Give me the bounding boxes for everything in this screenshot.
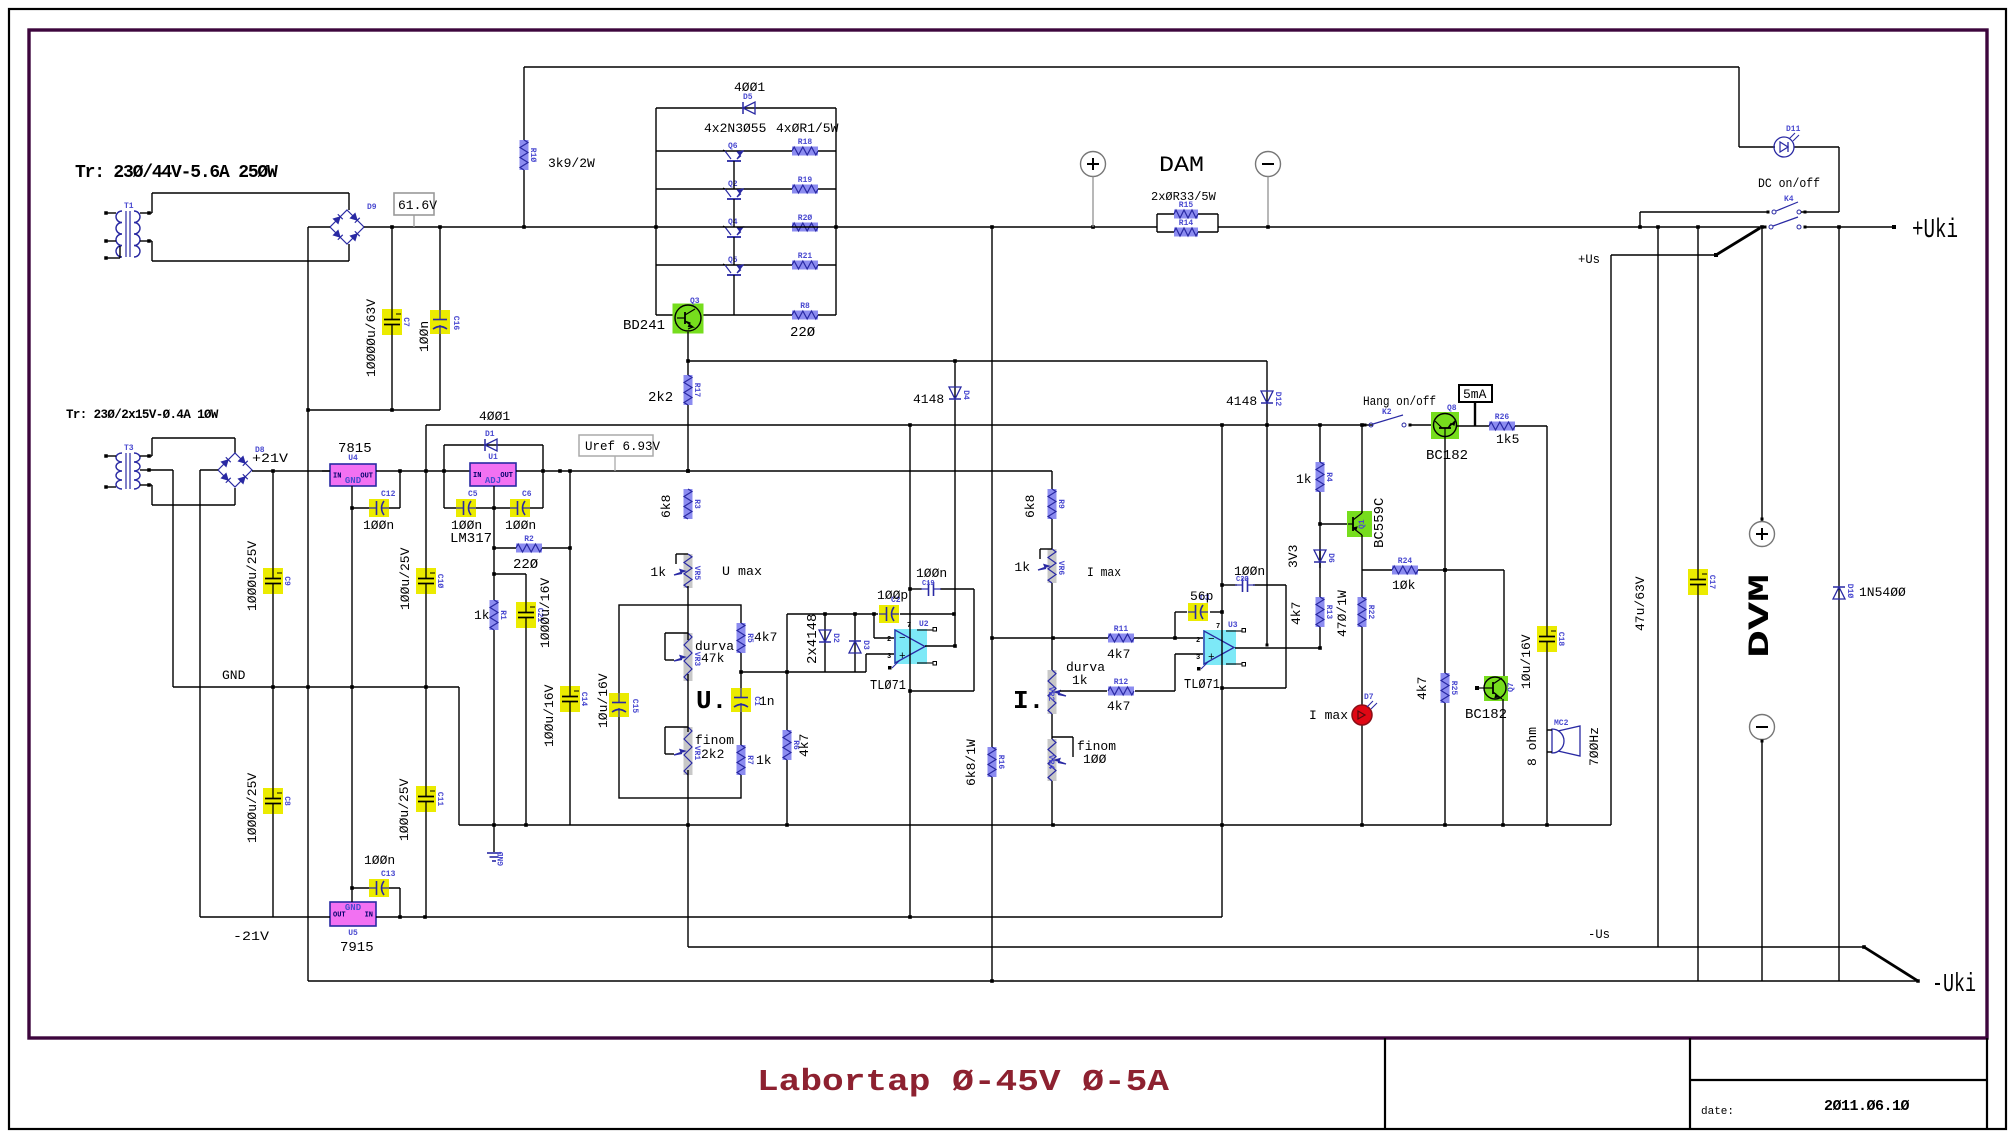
svg-text:C16: C16 bbox=[451, 316, 460, 331]
capacitor C12 100n bbox=[351, 486, 353, 687]
svg-text:Q3: Q3 bbox=[690, 297, 700, 306]
capacitor C18 10u/16V bbox=[1537, 626, 1557, 652]
terminal - circle bbox=[1256, 152, 1281, 177]
svg-text:I max: I max bbox=[1087, 565, 1121, 580]
wire pot column bbox=[687, 586, 689, 640]
svg-text:C8: C8 bbox=[282, 796, 291, 806]
svg-text:R18: R18 bbox=[798, 138, 813, 147]
resistor R17 2k2 bbox=[684, 375, 693, 405]
diode D5 bbox=[656, 107, 836, 109]
svg-text:IN: IN bbox=[473, 472, 481, 480]
resistor R13 4k7 bbox=[1316, 597, 1325, 627]
svg-text:GND: GND bbox=[222, 668, 246, 683]
capacitor C9 1000u/25V bbox=[272, 471, 274, 687]
wire R2 to C14 column bbox=[569, 471, 571, 825]
svg-text:R4: R4 bbox=[1324, 472, 1333, 482]
capacitor C6 100n bbox=[510, 499, 530, 517]
svg-text:R5: R5 bbox=[745, 633, 754, 643]
svg-text:4xØR1/5W: 4xØR1/5W bbox=[776, 121, 839, 136]
svg-text:VR5: VR5 bbox=[692, 566, 701, 581]
wire DVM plus column bbox=[1761, 227, 1763, 521]
svg-text:D1Ø: D1Ø bbox=[1845, 584, 1854, 599]
capacitor C17 47u/63V bbox=[1688, 569, 1708, 595]
svg-text:C5: C5 bbox=[468, 490, 478, 499]
svg-text:MC2: MC2 bbox=[1554, 719, 1569, 728]
svg-text:LM317: LM317 bbox=[450, 531, 492, 547]
svg-text:22Ø: 22Ø bbox=[513, 557, 538, 573]
svg-text:R1Ø: R1Ø bbox=[528, 148, 537, 163]
wire Q7 collector feed bbox=[1503, 570, 1505, 677]
svg-text:2k2: 2k2 bbox=[701, 747, 724, 762]
DVM plus terminal bbox=[1750, 522, 1775, 547]
svg-text:1k: 1k bbox=[474, 608, 490, 623]
svg-text:-21V: -21V bbox=[233, 929, 269, 944]
svg-text:K4: K4 bbox=[1784, 195, 1794, 204]
ground symbol GND bbox=[493, 825, 495, 852]
wire Q7 emitter down bbox=[1502, 699, 1504, 825]
svg-text:DAM: DAM bbox=[1159, 153, 1204, 178]
svg-text:Labortap Ø-45V Ø-5A: Labortap Ø-45V Ø-5A bbox=[757, 1065, 1169, 1100]
wire output blade bbox=[1864, 947, 1918, 981]
svg-text:4148: 4148 bbox=[913, 392, 944, 407]
svg-text:R9: R9 bbox=[1056, 499, 1065, 509]
wire to Q8 bbox=[1410, 424, 1434, 426]
wire supply column 1222 bbox=[1221, 425, 1223, 917]
svg-text:1ØØØØu/63V: 1ØØØØu/63V bbox=[364, 299, 379, 377]
svg-text:D12: D12 bbox=[1273, 392, 1282, 407]
node minus-junction 410 bbox=[306, 408, 310, 412]
svg-text:TLØ71: TLØ71 bbox=[1184, 678, 1220, 693]
wire K4 upper pole tap bbox=[1640, 211, 1768, 213]
svg-text:R14: R14 bbox=[1179, 219, 1194, 228]
diode D12 4148 bbox=[1266, 361, 1268, 644]
svg-text:R2: R2 bbox=[524, 535, 534, 544]
capacitor C14 100u/16V bbox=[560, 686, 580, 712]
resistor R8 bbox=[792, 311, 818, 320]
resistor R22 470/1W bbox=[1361, 570, 1363, 825]
pot VR3 durva 47k bbox=[684, 633, 693, 681]
resistor R10 3k9/2W bbox=[523, 67, 525, 227]
label 5mA box bbox=[1459, 385, 1492, 402]
wire 4001 rail bbox=[426, 424, 1373, 426]
wire C3 corner bbox=[1174, 612, 1176, 638]
svg-text:R3: R3 bbox=[692, 499, 701, 509]
svg-text:1N54ØØ: 1N54ØØ bbox=[1859, 585, 1906, 600]
wire capacitor bottom rail bbox=[308, 409, 440, 411]
svg-text:U4: U4 bbox=[348, 454, 358, 463]
svg-text:Q1: Q1 bbox=[1358, 519, 1367, 529]
svg-text:U max: U max bbox=[722, 564, 762, 579]
svg-text:1Øk: 1Øk bbox=[1392, 578, 1416, 593]
pot VR2 durva 1k bbox=[1048, 670, 1057, 714]
svg-text:ADJ: ADJ bbox=[485, 476, 501, 486]
svg-text:2: 2 bbox=[887, 636, 891, 644]
svg-text:D5: D5 bbox=[743, 93, 753, 102]
svg-text:IN: IN bbox=[333, 473, 341, 481]
wire U5 gnd bbox=[351, 687, 353, 902]
svg-text:U3: U3 bbox=[1228, 621, 1238, 630]
svg-text:U1: U1 bbox=[488, 453, 498, 462]
svg-text:C17: C17 bbox=[1707, 575, 1716, 590]
svg-text:7ØØHz: 7ØØHz bbox=[1587, 727, 1602, 766]
svg-text:3V3: 3V3 bbox=[1286, 545, 1301, 568]
svg-text:2k2: 2k2 bbox=[648, 390, 673, 406]
wire 471 rail to R9 bbox=[1051, 471, 1053, 825]
svg-text:T3: T3 bbox=[124, 444, 134, 453]
switch K4 upper pole bbox=[1772, 210, 1776, 214]
wire T1 S1 to bridge top bbox=[149, 212, 152, 214]
DVM minus terminal bbox=[1750, 715, 1775, 740]
svg-text:3: 3 bbox=[887, 653, 891, 661]
capacitor C2 100p bbox=[879, 605, 899, 623]
wire +Us vertical bbox=[1610, 255, 1612, 825]
svg-text:Q2: Q2 bbox=[728, 180, 738, 189]
svg-text:OUT: OUT bbox=[333, 912, 346, 920]
diode clamp rail bbox=[786, 614, 788, 672]
svg-text:1ØØn: 1ØØn bbox=[916, 566, 947, 581]
svg-text:C18: C18 bbox=[1556, 632, 1565, 647]
svg-text:3: 3 bbox=[1196, 654, 1200, 662]
svg-text:D1: D1 bbox=[485, 430, 495, 439]
transistor Q4 row bbox=[725, 227, 731, 235]
wire BD241 row bbox=[656, 314, 836, 316]
svg-text:1ØØ: 1ØØ bbox=[1083, 752, 1107, 767]
svg-text:R25: R25 bbox=[1449, 681, 1458, 696]
svg-text:R19: R19 bbox=[798, 176, 813, 185]
svg-text:Q5: Q5 bbox=[728, 256, 738, 265]
capacitor C8 1000u/25V bbox=[272, 687, 274, 917]
diode D2 bbox=[824, 614, 826, 672]
svg-text:date:: date: bbox=[1701, 1106, 1734, 1118]
svg-text:+21V: +21V bbox=[252, 451, 288, 466]
svg-text:1k: 1k bbox=[650, 565, 666, 580]
transistor Q1 BC559C bbox=[1347, 511, 1372, 537]
diode D10 1N5400 bbox=[1833, 587, 1845, 599]
resistor R3 6k8 bbox=[684, 489, 693, 519]
svg-text:D4: D4 bbox=[961, 390, 970, 400]
svg-text:U5: U5 bbox=[348, 929, 358, 938]
svg-text:VR2: VR2 bbox=[1046, 687, 1055, 702]
svg-text:3k9/2W: 3k9/2W bbox=[548, 156, 595, 171]
svg-text:+Us: +Us bbox=[1578, 252, 1600, 267]
svg-text:D11: D11 bbox=[1786, 125, 1801, 134]
svg-text:1k: 1k bbox=[1014, 560, 1030, 575]
svg-text:Tr: 23Ø/2x15V-Ø.4A 1ØW: Tr: 23Ø/2x15V-Ø.4A 1ØW bbox=[66, 408, 219, 422]
wire opamp supply column bbox=[909, 425, 911, 917]
bridge rectifier D9 bbox=[330, 210, 364, 244]
svg-text:1k: 1k bbox=[756, 753, 772, 768]
svg-text:56p: 56p bbox=[1190, 589, 1213, 604]
bridge rectifier D8 bbox=[218, 453, 252, 487]
resistor R7 1k bbox=[737, 745, 746, 775]
svg-text:VR4: VR4 bbox=[1046, 755, 1055, 770]
resistor R9 6k8 bbox=[1048, 489, 1057, 519]
resistor R5 4k7 bbox=[737, 623, 746, 653]
transistor Q3 BD241 bbox=[673, 304, 704, 334]
svg-text:2: 2 bbox=[1196, 637, 1200, 645]
svg-text:1ØØØu/16V: 1ØØØu/16V bbox=[538, 578, 553, 648]
svg-text:C9: C9 bbox=[282, 576, 291, 586]
wire opamp minus input bbox=[873, 614, 875, 638]
wire 672 tap line bbox=[739, 670, 743, 674]
svg-text:D2: D2 bbox=[831, 633, 840, 643]
resistor R14 bbox=[1217, 214, 1219, 232]
wire ADJ down bbox=[493, 486, 495, 825]
wire BD241 emitter bbox=[687, 332, 689, 471]
svg-text:47Ø/1W: 47Ø/1W bbox=[1335, 590, 1350, 637]
resistor R12 4k7 bbox=[1108, 687, 1134, 696]
wire column D10 bbox=[1838, 227, 1840, 981]
svg-text:7915: 7915 bbox=[340, 940, 374, 956]
transformer T1 bbox=[116, 211, 122, 257]
label Uref 6.93V box bbox=[579, 435, 653, 456]
led D7 I max bbox=[1352, 705, 1372, 725]
wire block right vertical bbox=[835, 108, 837, 315]
resistor R16 6k8/1W bbox=[991, 227, 993, 981]
title block box bbox=[1384, 1038, 1386, 1129]
capacitor C15 10u/16V bbox=[609, 693, 629, 717]
svg-text:1ØØn: 1ØØn bbox=[364, 853, 395, 868]
capacitor C10 100u/25V bbox=[425, 471, 427, 687]
pot VR1 finom 2k2 bbox=[684, 727, 693, 775]
speaker MC2 8ohm 700Hz bbox=[1552, 729, 1564, 753]
transistor Q8 BC182 bbox=[1431, 412, 1459, 439]
svg-text:R24: R24 bbox=[1398, 557, 1413, 566]
wire Q8 to R26 bbox=[1456, 425, 1490, 427]
resistor R19 bbox=[792, 185, 818, 194]
svg-text:I max: I max bbox=[1309, 708, 1348, 723]
wire T1 S3 to bridge bottom bbox=[149, 240, 152, 242]
U block box bbox=[619, 605, 741, 798]
wire +21V rail bbox=[252, 470, 330, 472]
svg-text:R2Ø: R2Ø bbox=[798, 214, 813, 223]
wire Q1 collector down bbox=[1361, 535, 1363, 570]
svg-text:BC182: BC182 bbox=[1465, 707, 1507, 723]
svg-text:C1Ø: C1Ø bbox=[435, 574, 444, 589]
wire rail to DAM bbox=[836, 226, 1157, 228]
wire opamp plus input bbox=[865, 654, 867, 672]
terminal + circle bbox=[1081, 152, 1106, 177]
resistor R20 bbox=[792, 223, 818, 232]
wire U3 minus bbox=[1175, 637, 1204, 639]
svg-text:R8: R8 bbox=[800, 302, 810, 311]
svg-text:R17: R17 bbox=[692, 383, 701, 398]
svg-text:22Ø: 22Ø bbox=[790, 325, 815, 341]
switch K2 bbox=[1369, 423, 1373, 427]
wire rail through block bbox=[656, 226, 836, 228]
capacitor C7 10000u/63V bbox=[391, 227, 393, 410]
svg-text:R15: R15 bbox=[1179, 201, 1194, 210]
svg-text:1ØØu/16V: 1ØØu/16V bbox=[542, 684, 557, 747]
svg-text:47u/63V: 47u/63V bbox=[1633, 576, 1648, 631]
svg-text:U2: U2 bbox=[919, 620, 929, 629]
svg-text:1ØØØu/25V: 1ØØØu/25V bbox=[245, 773, 260, 843]
svg-text:+: + bbox=[899, 651, 906, 663]
svg-text:−: − bbox=[1208, 634, 1215, 646]
wire top rail down bbox=[1738, 67, 1740, 147]
capacitor C19 100n loop bbox=[910, 588, 922, 590]
svg-text:C12: C12 bbox=[381, 490, 396, 499]
svg-text:C11: C11 bbox=[435, 792, 444, 807]
svg-text:D9: D9 bbox=[367, 203, 377, 212]
svg-text:4ØØ1: 4ØØ1 bbox=[479, 409, 510, 424]
svg-text:GND: GND bbox=[497, 851, 506, 866]
capacitor C11 100u/25V bbox=[425, 687, 427, 917]
resistor R24 10k bbox=[1392, 566, 1418, 575]
wire U3 output bbox=[1235, 647, 1320, 649]
wire R4 column bbox=[1319, 425, 1321, 648]
wire 425 rail corner bbox=[425, 425, 427, 471]
svg-text:U.: U. bbox=[696, 686, 727, 716]
wire 61.6V rail bbox=[364, 226, 656, 228]
wire block left vertical bbox=[655, 108, 657, 315]
svg-text:1ØØn: 1ØØn bbox=[505, 518, 536, 533]
capacitor C16 100n bbox=[439, 227, 441, 410]
resistor R25 4k7 bbox=[1441, 673, 1450, 703]
svg-text:5mA: 5mA bbox=[1463, 387, 1487, 402]
resistor R26 1k5 bbox=[1489, 422, 1515, 431]
svg-text:OUT: OUT bbox=[360, 473, 373, 481]
regulator U1 LM317 bbox=[470, 463, 516, 486]
svg-text:−: − bbox=[899, 633, 906, 645]
svg-text:-Us: -Us bbox=[1588, 927, 1610, 942]
svg-text:DVM: DVM bbox=[1744, 574, 1778, 658]
svg-text:Q6: Q6 bbox=[728, 142, 738, 151]
svg-text:1k: 1k bbox=[1072, 673, 1088, 688]
svg-text:C14: C14 bbox=[579, 692, 588, 707]
svg-text:D6: D6 bbox=[1326, 553, 1335, 563]
led D11 bbox=[1739, 146, 1775, 148]
wire U2 output bbox=[925, 645, 955, 647]
svg-text:1ØØu/25V: 1ØØu/25V bbox=[398, 547, 413, 610]
wire -Uki rail 981 bbox=[308, 980, 1918, 982]
svg-text:1ØØn: 1ØØn bbox=[1234, 564, 1265, 579]
svg-text:OUT: OUT bbox=[500, 472, 513, 480]
svg-text:1ØØØu/25V: 1ØØØu/25V bbox=[245, 541, 260, 611]
svg-text:BC182: BC182 bbox=[1426, 448, 1468, 464]
svg-text:1Øu/16V: 1Øu/16V bbox=[596, 673, 611, 728]
wire bridge minus down bbox=[308, 226, 330, 228]
svg-text:1k5: 1k5 bbox=[1496, 432, 1519, 447]
svg-text:1ØØp: 1ØØp bbox=[877, 588, 908, 603]
wire rail DAM to switch bbox=[1218, 226, 1762, 228]
svg-text:4x2N3Ø55: 4x2N3Ø55 bbox=[704, 121, 766, 136]
svg-text:C19: C19 bbox=[922, 580, 935, 588]
svg-text:1k: 1k bbox=[1296, 472, 1312, 487]
svg-text:4k7: 4k7 bbox=[1415, 677, 1430, 700]
wire U3 plus bbox=[1135, 690, 1175, 692]
switch K4 lower pole bbox=[1769, 225, 1773, 229]
svg-text:4148: 4148 bbox=[1226, 394, 1257, 409]
capacitor C13 100n bbox=[352, 887, 400, 889]
wire switch blade bold bbox=[1716, 228, 1760, 255]
wire R26 to C18 column bbox=[1515, 425, 1547, 427]
resistor R11 4k7 bbox=[1108, 634, 1134, 643]
wire Q8 base down bbox=[1444, 437, 1446, 825]
svg-text:Uref 6.93V: Uref 6.93V bbox=[585, 440, 661, 454]
svg-text:I.: I. bbox=[1013, 686, 1044, 716]
wire T3 center tap to GND rail bbox=[149, 469, 173, 471]
resistor R21 bbox=[792, 261, 818, 270]
capacitor C20 100n loop bbox=[1222, 584, 1237, 586]
transformer T3 bbox=[116, 453, 122, 489]
pot VR6 1k I max bbox=[1048, 549, 1057, 583]
svg-text:Tr: 23Ø/44V-5.6A 25ØW: Tr: 23Ø/44V-5.6A 25ØW bbox=[75, 163, 278, 183]
svg-text:TLØ71: TLØ71 bbox=[870, 679, 906, 694]
zener D6 3V3 bbox=[1319, 549, 1321, 568]
resistor R18 bbox=[792, 147, 818, 156]
svg-text:GND: GND bbox=[345, 903, 362, 913]
svg-text:8 ohm: 8 ohm bbox=[1525, 727, 1540, 766]
svg-text:GND: GND bbox=[345, 476, 362, 486]
transistor Q2 row bbox=[656, 188, 836, 190]
diode D4 4148 bbox=[954, 361, 956, 646]
wire base chain bbox=[733, 161, 735, 189]
capacitor C1 1n bbox=[731, 688, 751, 712]
svg-text:Q7: Q7 bbox=[1507, 682, 1516, 692]
resistor R6 4k7 bbox=[783, 730, 792, 760]
svg-text:C6: C6 bbox=[522, 490, 532, 499]
transistor Q5 row bbox=[656, 264, 836, 266]
svg-text:+: + bbox=[1208, 652, 1215, 664]
regulator U5 7915 bbox=[330, 902, 376, 926]
GND rail bbox=[173, 686, 459, 688]
svg-text:4k7: 4k7 bbox=[1107, 699, 1130, 714]
resistor R2 220 bbox=[494, 547, 570, 549]
svg-text:T1: T1 bbox=[124, 202, 134, 211]
capacitor C5 100n bbox=[443, 471, 445, 508]
wire DVM minus column bbox=[1761, 740, 1763, 981]
svg-text:R13: R13 bbox=[1324, 605, 1333, 620]
svg-text:4k7: 4k7 bbox=[1107, 647, 1130, 662]
svg-text:7: 7 bbox=[1216, 623, 1220, 631]
svg-text:1Øu/16V: 1Øu/16V bbox=[1519, 634, 1534, 689]
svg-text:Hang on/off: Hang on/off bbox=[1363, 395, 1436, 409]
wire T3 S3 to bridge bottom bbox=[149, 484, 152, 486]
svg-text:6k8/1W: 6k8/1W bbox=[964, 739, 979, 786]
transistor Q6 row bbox=[656, 150, 836, 152]
svg-text:1ØØn: 1ØØn bbox=[417, 321, 432, 352]
svg-text:47k: 47k bbox=[701, 651, 725, 666]
svg-text:DC on/off: DC on/off bbox=[1758, 177, 1820, 191]
svg-text:C7: C7 bbox=[401, 317, 410, 327]
wire R24 line bbox=[1362, 569, 1504, 571]
diode D3 bbox=[854, 614, 856, 672]
pot VR4 finom 100 bbox=[1048, 739, 1057, 781]
wire +Us rail 825 bbox=[459, 824, 1611, 826]
wire gnd down right bbox=[458, 687, 460, 825]
wire T3 S1 to bridge top bbox=[149, 455, 152, 457]
svg-text:6k8: 6k8 bbox=[1023, 495, 1038, 518]
svg-text:4k7: 4k7 bbox=[1289, 602, 1304, 625]
svg-text:C13: C13 bbox=[381, 870, 396, 879]
resistor R1 1k bbox=[490, 600, 499, 630]
svg-text:R1: R1 bbox=[498, 610, 507, 620]
svg-text:D3: D3 bbox=[861, 640, 870, 650]
pot VR5 1k U max bbox=[684, 554, 693, 588]
op-amp U2 TL071 bbox=[894, 629, 927, 664]
svg-text:D7: D7 bbox=[1364, 693, 1374, 702]
wire led loop right bbox=[1838, 147, 1840, 212]
svg-text:finom: finom bbox=[695, 733, 734, 748]
svg-text:4k7: 4k7 bbox=[754, 630, 777, 645]
capacitor C3 56p bbox=[1175, 611, 1187, 613]
svg-text:2Ø11.Ø6.1Ø: 2Ø11.Ø6.1Ø bbox=[1824, 1098, 1910, 1115]
svg-text:6k8: 6k8 bbox=[659, 495, 674, 518]
svg-text:1ØØu/25V: 1ØØu/25V bbox=[397, 778, 412, 841]
wire R11 line bbox=[992, 637, 1175, 639]
wire VR2 wiper to R12 bbox=[1060, 690, 1107, 692]
